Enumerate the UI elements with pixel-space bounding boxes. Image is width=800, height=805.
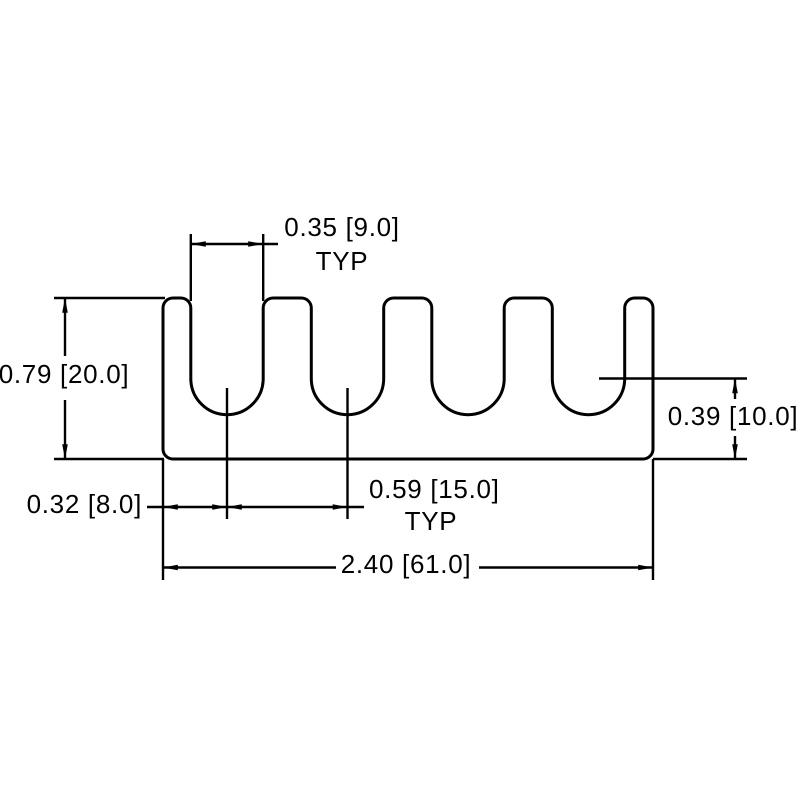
dim 0.79 top arrow xyxy=(62,298,68,313)
svg-text:TYP: TYP xyxy=(316,246,369,276)
svg-text:0.39 [10.0]: 0.39 [10.0] xyxy=(668,401,799,431)
dim 2.40 dimension line left segment xyxy=(163,566,336,568)
dim 0.39 dimension line upper segment xyxy=(734,379,736,400)
dim 0.59 left arrow xyxy=(227,504,242,510)
dim 0.32 left arrow xyxy=(163,504,178,510)
svg-text:0.59 [15.0]: 0.59 [15.0] xyxy=(369,474,500,504)
dim 0.32 / 0.59 dimension line xyxy=(147,506,364,508)
slot 1 centerline xyxy=(226,388,228,519)
dim 0.39 dimension line lower segment xyxy=(734,436,736,459)
slot 2 centerline xyxy=(346,388,348,519)
right extension line below body xyxy=(652,459,654,580)
dim 0.32 right arrow xyxy=(212,504,227,510)
dim 0.35 right arrow xyxy=(248,241,263,247)
dim 0.79 bottom arrow xyxy=(62,444,68,459)
dim 0.35 left extension line xyxy=(190,234,192,301)
svg-text:0.32 [8.0]: 0.32 [8.0] xyxy=(27,489,142,519)
dim 0.39 top arrow xyxy=(732,379,738,394)
dim 0.79 dimension line lower segment xyxy=(64,400,66,459)
dim 0.79 top extension line xyxy=(54,297,165,299)
dim 0.35 dimension line xyxy=(191,243,278,245)
svg-text:0.79 [20.0]: 0.79 [20.0] xyxy=(0,359,129,389)
svg-text:2.40 [61.0]: 2.40 [61.0] xyxy=(341,549,472,579)
dim 2.40 left arrow xyxy=(163,565,178,571)
svg-text:TYP: TYP xyxy=(405,506,458,536)
left extension line below body xyxy=(162,459,164,580)
dim 2.40 right arrow xyxy=(638,565,653,571)
dim 0.59 right arrow xyxy=(333,504,348,510)
dim 0.35 left arrow xyxy=(191,241,206,247)
dim 0.35 right extension line xyxy=(262,234,264,301)
dim 0.79 dimension line upper segment xyxy=(64,298,66,356)
dim 0.39 lower reference line xyxy=(653,458,747,460)
dim 2.40 dimension line right segment xyxy=(479,566,653,568)
dim 0.39 bottom arrow xyxy=(732,444,738,459)
dim 0.39 upper reference line xyxy=(599,377,747,379)
comb body outline xyxy=(163,298,653,459)
svg-text:0.35 [9.0]: 0.35 [9.0] xyxy=(284,212,399,242)
dim 0.79 bottom extension line xyxy=(54,458,164,460)
